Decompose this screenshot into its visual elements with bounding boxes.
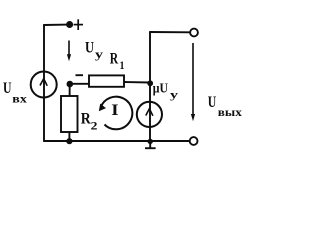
ground — [145, 141, 156, 148]
svg-text:1: 1 — [120, 58, 125, 72]
wire top-left horizontal — [44, 24, 69, 26]
wire left vertical — [43, 25, 45, 141]
wire top-right horizontal — [150, 31, 190, 33]
node right junction — [147, 80, 153, 86]
minus sign — [76, 74, 84, 76]
node bottom-left junction — [66, 138, 72, 144]
svg-text:R: R — [110, 51, 119, 68]
plus sign — [74, 19, 83, 30]
wire node to R1 — [70, 83, 89, 85]
svg-text:у: у — [95, 47, 103, 61]
wire right vertical — [149, 32, 151, 141]
voltage source Uvx — [31, 72, 57, 98]
resistor R1 — [89, 75, 124, 86]
dependent source uUy — [137, 102, 162, 127]
node top + terminal dot — [66, 21, 73, 28]
wire R2 to bottom — [68, 132, 70, 141]
arrowhead current loop — [99, 104, 106, 112]
arrow Uvyh output voltage — [191, 43, 195, 121]
wire node to R2 — [69, 84, 71, 96]
svg-text:2: 2 — [91, 118, 98, 132]
arrow inside Uvx source — [40, 79, 47, 86]
wire R1 to right node — [124, 81, 150, 84]
svg-text:вых: вых — [218, 105, 242, 119]
node middle-left — [67, 81, 74, 88]
svg-text:U: U — [208, 94, 217, 111]
svg-text:U: U — [85, 40, 94, 57]
svg-text:у: у — [170, 89, 179, 101]
wire bottom horizontal — [44, 140, 190, 142]
terminal bottom-right — [190, 137, 198, 145]
node bottom-right junction — [148, 139, 153, 144]
terminal top-right — [190, 29, 198, 37]
arrow Uy control voltage — [67, 41, 71, 62]
current loop I — [101, 97, 133, 130]
svg-text:μU: μU — [153, 82, 168, 97]
arrow inside dependent source — [146, 109, 153, 116]
svg-text:I: I — [111, 102, 118, 119]
svg-text:вх: вх — [12, 91, 26, 105]
resistor R2 — [61, 96, 78, 132]
svg-text:U: U — [3, 80, 12, 97]
